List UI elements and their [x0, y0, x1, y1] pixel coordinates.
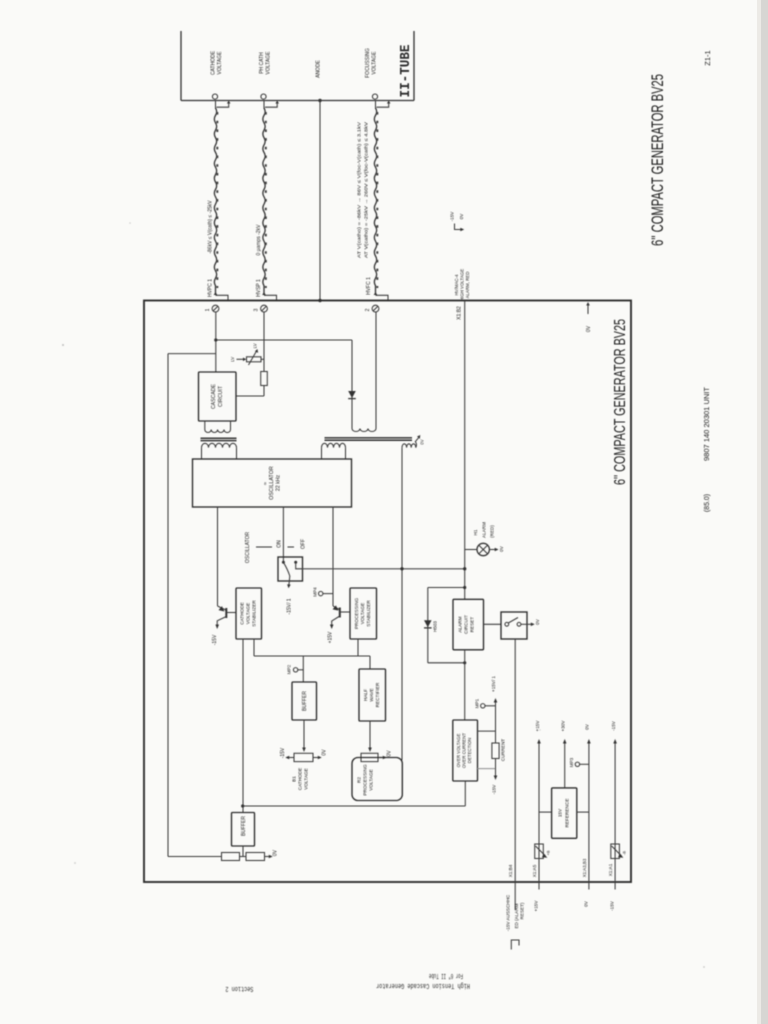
pin hook 2 at box border — [262, 292, 266, 295]
resistor CURRENT — [492, 743, 499, 759]
svg-text:H1: H1 — [473, 529, 478, 535]
rectifier to R2 — [369, 721, 371, 748]
svg-text:AT V(catho) = -25kV → 260V ≤ V: AT V(catho) = -25kV → 260V ≤ V(foc-V(cat… — [364, 121, 369, 258]
osc bottom wire right — [332, 507, 334, 606]
supply wire -15V (X1:A1) — [614, 742, 616, 890]
CASCADE CIRCUIT box — [199, 372, 237, 421]
svg-text:ALARM, RED: ALARM, RED — [465, 272, 470, 299]
15V REFERENCE box — [552, 788, 577, 838]
CVS bottom wires — [242, 639, 244, 812]
svg-text:CIRCUIT: CIRCUIT — [464, 615, 469, 634]
0V arrow at top border — [587, 304, 589, 314]
feedback vertical left — [167, 354, 169, 857]
svg-text:B1: B1 — [292, 776, 297, 782]
svg-text:PROCESSING: PROCESSING — [363, 764, 368, 796]
tube contact pin focus — [372, 94, 377, 99]
svg-text:-15V: -15V — [610, 900, 615, 911]
test point MP1 — [481, 704, 485, 708]
svg-text:0 μamps -2kV: 0 μamps -2kV — [256, 224, 262, 256]
svg-text:2: 2 — [365, 308, 371, 311]
tube contact pin cathode — [212, 94, 217, 99]
svg-text:OVER CURRENT: OVER CURRENT — [461, 733, 466, 768]
transformer T1 primary winding — [202, 443, 237, 447]
wire alarm to reset switch — [484, 623, 502, 625]
svg-text:High Tension Cascade Generator: High Tension Cascade Generator — [376, 981, 470, 989]
lamp H1 — [465, 549, 477, 551]
svg-text:VOLTAGE: VOLTAGE — [246, 603, 251, 624]
transformer T1 top winding — [204, 421, 206, 430]
svg-text:0V: 0V — [387, 750, 393, 757]
trimmer (cascade adjust) — [247, 357, 262, 362]
pin hook 3 at box border — [374, 292, 378, 295]
bus y656 — [254, 655, 370, 657]
svg-text:ALARM: ALARM — [458, 616, 463, 632]
wire pin2 down to T2 — [375, 312, 377, 429]
svg-text:HALF: HALF — [363, 689, 368, 701]
HV cable 2 (ph cath) wavy — [263, 108, 265, 294]
svg-text:HVSP 1: HVSP 1 — [256, 279, 262, 297]
rectifier drop — [369, 656, 371, 669]
wire y340 to HV diode — [216, 339, 352, 341]
svg-text:Section 2: Section 2 — [225, 984, 253, 992]
svg-text:+15V: +15V — [535, 720, 540, 732]
svg-text:-86kV ≤ V(cath) ≤ -25kV: -86kV ≤ V(cath) ≤ -25kV — [207, 200, 213, 254]
svg-text:VOLTAGE: VOLTAGE — [304, 768, 309, 789]
svg-text:X1:B2: X1:B2 — [456, 306, 462, 320]
svg-text:CATHODE: CATHODE — [240, 602, 245, 625]
svg-text:CATHODE: CATHODE — [298, 768, 303, 791]
svg-text:VOLTAGE: VOLTAGE — [371, 51, 377, 75]
svg-text:BUFFER: BUFFER — [241, 816, 247, 836]
II-TUBE connector bracket right line — [413, 31, 415, 101]
svg-text:LV: LV — [253, 343, 258, 348]
test point MP2 — [293, 668, 297, 672]
svg-text:HVFC 1: HVFC 1 — [366, 277, 372, 295]
BUFFER box — [292, 682, 317, 720]
supply wire +15V (X1:A5) — [538, 742, 540, 890]
transformer T2 secondary winding — [352, 429, 376, 432]
BUFFER 2 box — [232, 813, 255, 847]
switch S2 reset — [501, 612, 527, 639]
transistor Q2 — [333, 606, 339, 610]
svg-text:+B: +B — [546, 850, 551, 855]
test point MP4 — [319, 591, 323, 595]
svg-text:PROCESSING: PROCESSING — [354, 598, 359, 630]
svg-text:0V: 0V — [322, 749, 328, 756]
output wire X1:B4 below border — [514, 882, 516, 910]
diode D1 — [351, 340, 353, 429]
svg-text:R2: R2 — [357, 777, 362, 783]
CATHODE VOLTAGE STABILIZER box — [236, 588, 262, 639]
svg-text:HV/MAC-4: HV/MAC-4 — [454, 274, 459, 296]
wire switch to alarm line — [303, 568, 465, 570]
svg-text:LV: LV — [230, 357, 235, 362]
svg-text:0V: 0V — [459, 213, 464, 220]
svg-text:VOLTAGE: VOLTAGE — [265, 51, 271, 75]
transformer T2 feedback winding — [402, 444, 416, 448]
svg-text:AT V(catho) = -86kV → 86V ≤ V(: AT V(catho) = -86kV → 86V ≤ V(foc-V(cath… — [356, 121, 361, 258]
II-TUBE connector bracket bottom line — [181, 100, 414, 102]
scanner right edge band — [761, 0, 768, 1024]
trim pot on -15V — [611, 844, 620, 859]
HV cable 1 (cathode) wavy — [214, 108, 216, 294]
PROCESSING VOLTAGE STABILIZER box — [350, 588, 377, 639]
svg-text:HIGH VOLTAGE: HIGH VOLTAGE — [460, 269, 465, 301]
svg-text:RESET): RESET) — [520, 902, 525, 919]
svg-text:-15V: -15V — [280, 747, 286, 758]
pin contact 2 — [372, 305, 379, 312]
reset pulse symbol — [511, 940, 519, 950]
resistor Rf2 — [246, 853, 265, 861]
svg-text:6'' COMPACT GENERATOR BV25: 6'' COMPACT GENERATOR BV25 — [612, 319, 629, 485]
switch S2 bottom wire — [514, 639, 516, 882]
svg-text:VOLTAGE: VOLTAGE — [360, 603, 365, 624]
switch S1 oscillator on/off — [278, 557, 303, 581]
R2 rounded module box — [352, 758, 402, 801]
svg-text:(RED): (RED) — [489, 525, 494, 538]
svg-text:HVPC 1: HVPC 1 — [208, 279, 214, 297]
potentiometer R1 — [294, 753, 313, 761]
osc bottom wire mid to switch — [282, 507, 284, 562]
svg-text:H503: H503 — [432, 621, 437, 632]
svg-text:6'' COMPACT GENERATOR BV25: 6'' COMPACT GENERATOR BV25 — [648, 74, 667, 246]
wire alarm to detection — [464, 650, 466, 720]
transistor Q1 — [218, 606, 226, 610]
svg-text:STABILIZER: STABILIZER — [252, 600, 257, 627]
wire pin1 to cascade — [215, 312, 217, 372]
HALF WAVE RECTIFIER box — [359, 669, 386, 721]
svg-text:X1:A5: X1:A5 — [532, 864, 537, 877]
svg-text:RESET: RESET — [470, 617, 475, 633]
svg-text:-15V AUSSCHHC: -15V AUSSCHHC — [506, 894, 511, 931]
scan specks — [62, 344, 64, 346]
svg-text:ON: ON — [277, 540, 283, 548]
HV cable 3 (focus) wavy — [374, 108, 376, 294]
svg-text:0V: 0V — [586, 325, 592, 332]
transformer T2 core — [325, 437, 413, 439]
ALARM CIRCUIT RESET box — [453, 599, 484, 650]
svg-text:0V: 0V — [420, 439, 425, 444]
trim pot on +15V — [535, 844, 544, 859]
svg-text:0V: 0V — [535, 618, 540, 625]
svg-text:0V: 0V — [584, 900, 589, 907]
svg-text:DETECTION: DETECTION — [467, 738, 472, 763]
svg-text:0V: 0V — [585, 723, 590, 730]
svg-text:+30V: +30V — [561, 720, 566, 732]
resistor on pin3 wire — [261, 372, 268, 386]
buffer1 drop — [302, 656, 304, 682]
svg-text:OFF: OFF — [301, 539, 307, 549]
current sense branch — [478, 730, 496, 732]
buffer to R1 — [303, 720, 305, 748]
svg-text:STABILIZER: STABILIZER — [366, 600, 371, 627]
svg-text:-B: -B — [622, 851, 627, 855]
anode wire — [319, 101, 321, 301]
svg-text:+15V/ 1: +15V/ 1 — [491, 676, 496, 692]
transformer T2 primary winding — [322, 443, 346, 447]
test point MP3 — [575, 762, 579, 766]
bus y806 — [243, 805, 466, 807]
pin contact 1 — [212, 305, 219, 312]
svg-text:VOLTAGE: VOLTAGE — [217, 51, 223, 75]
PVS bottom wire — [357, 639, 359, 656]
0V wire (X1:A3,B3) — [588, 742, 590, 890]
ref connect right — [577, 811, 589, 813]
svg-text:9807 140 20301 UNIT: 9807 140 20301 UNIT — [704, 386, 711, 461]
svg-text:BUFFER: BUFFER — [302, 691, 308, 711]
svg-text:MP4: MP4 — [313, 587, 318, 597]
pin contact 3 — [261, 305, 268, 312]
svg-text:+15V: +15V — [328, 631, 334, 643]
anode junction on tube line — [318, 99, 321, 102]
svg-text:WAVE: WAVE — [369, 688, 374, 701]
svg-text:OSCILLATOR: OSCILLATOR — [269, 466, 275, 500]
svg-text:X1:B4: X1:B4 — [508, 864, 513, 877]
svg-text:0V: 0V — [499, 545, 504, 552]
svg-text:0V: 0V — [273, 849, 279, 856]
potentiometer R2 — [361, 753, 378, 761]
svg-text:(85.0): (85.0) — [704, 494, 711, 512]
wire X1:B2 vertical — [464, 301, 466, 600]
svg-text:CIRCUIT: CIRCUIT — [218, 385, 224, 407]
osc bottom wire left — [217, 507, 219, 606]
svg-text:OSCILLATOR: OSCILLATOR — [245, 532, 251, 564]
resistor Rf1 — [222, 853, 240, 861]
svg-text:REFERENCE: REFERENCE — [565, 799, 570, 828]
tube contact pin ph-cath — [261, 94, 266, 99]
svg-text:22 kHz: 22 kHz — [276, 475, 282, 492]
svg-text:CATHODE: CATHODE — [210, 50, 216, 75]
svg-text:-15V: -15V — [611, 720, 616, 731]
anode junction at border — [318, 299, 321, 302]
transformer T1 core — [201, 437, 237, 439]
+30V output from reference — [564, 742, 566, 788]
svg-text:ALARM: ALARM — [481, 522, 486, 538]
svg-text:CURRENT: CURRENT — [501, 739, 506, 762]
OVER VOLTAGE OVER CURRENT DETECTION box — [453, 720, 478, 781]
feedback horizontal top — [168, 353, 216, 355]
HV cable top stubs — [215, 101, 217, 110]
feedback bottom wire — [168, 856, 222, 858]
ref connect left — [539, 811, 552, 813]
svg-text:X1:A3,B3: X1:A3,B3 — [582, 858, 587, 877]
svg-text:Z1-1: Z1-1 — [703, 50, 712, 65]
svg-text:-15V/ 1: -15V/ 1 — [287, 598, 293, 614]
svg-text:-15V: -15V — [491, 784, 496, 795]
diode H503 bypass loop — [428, 587, 465, 589]
svg-text:RECTIFIER: RECTIFIER — [375, 682, 380, 707]
svg-text:MP1: MP1 — [475, 698, 480, 708]
svg-text:PH CATH: PH CATH — [259, 52, 265, 74]
svg-text:1: 1 — [205, 308, 211, 311]
svg-text:+15V: +15V — [534, 900, 539, 912]
svg-text:ED (ALARM: ED (ALARM — [514, 903, 519, 928]
svg-text:-15V: -15V — [212, 634, 218, 645]
svg-text:VOLTAGE: VOLTAGE — [369, 769, 374, 790]
svg-text:MP2: MP2 — [287, 664, 292, 674]
svg-text:-15V: -15V — [450, 211, 455, 222]
OSCILLATOR box — [193, 459, 352, 507]
svg-text:MP3: MP3 — [569, 757, 574, 767]
wire pin3 down — [263, 312, 265, 372]
svg-text:OVER VOLTAGE: OVER VOLTAGE — [456, 734, 461, 768]
buffer2 to resistors — [242, 846, 244, 857]
main unit box — [144, 301, 631, 883]
svg-text:ANODE: ANODE — [315, 59, 321, 77]
pin hook 1 at box border — [214, 292, 218, 295]
svg-text:CASCADE: CASCADE — [211, 383, 217, 409]
svg-text:FOCUSSING: FOCUSSING — [365, 48, 371, 78]
svg-text:II-TUBE: II-TUBE — [398, 45, 414, 98]
svg-text:For 6" II Tube: For 6" II Tube — [429, 971, 463, 979]
svg-text:15V: 15V — [558, 808, 563, 817]
detection to bus — [464, 781, 466, 806]
II-TUBE connector bracket left line — [180, 31, 182, 101]
svg-text:X1:A1: X1:A1 — [608, 863, 613, 876]
svg-text:3: 3 — [254, 308, 260, 311]
